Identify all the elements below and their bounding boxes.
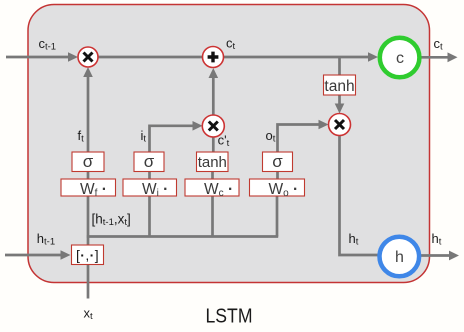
arrowhead f into x-node1 [83,67,93,77]
svg-text:tanh: tanh [198,154,227,171]
arrowhead into c circle [368,52,378,62]
svg-text:[·,·]: [·,·] [76,247,99,263]
wire o column up and right [278,125,320,153]
arrowhead i into c't node [193,121,203,131]
hidden state circle h [380,237,420,277]
add node [203,47,224,68]
sigma box o [263,152,293,172]
concat box [.,.] [72,245,104,265]
wire Wi stub down to bus [148,196,151,237]
wire sigma-i to Wi [148,172,151,180]
wire x-node2 down to h row [340,136,379,256]
wire x-node to +-node [98,56,203,59]
wire Wf stub down to concat box [87,196,90,245]
svg-text:Wf ·: Wf · [80,181,107,199]
multiply node (forget gate) [78,47,98,67]
weight box Wo [250,179,305,199]
arrowhead into x-node1 [68,52,78,62]
svg-text:h: h [395,249,404,266]
svg-text:σ: σ [272,152,283,171]
tanh box (candidate) [197,152,229,172]
wire c circle output [422,56,449,59]
memory cell circle c [380,38,420,78]
wire Wc stub down to bus [211,196,214,237]
wire h(t-1) input [5,254,62,257]
wire x(t) below concat box [87,265,90,299]
sigma box f [72,152,104,172]
arrowhead c(t) output [448,52,458,62]
wire i column up and right [150,126,194,152]
arrowhead o into x-node2 [319,120,329,130]
arrowhead h(t) output [449,251,459,261]
multiply node c't [202,115,224,137]
wire bus [87,235,278,238]
wire f column up [87,77,90,152]
wire tanh box to x-node2 [338,95,341,105]
wire +-node to c circle [224,56,370,59]
svg-text:tanh: tanh [324,78,354,95]
arrowhead into x-node2 from tanh [335,104,345,114]
sigma box i [134,152,164,172]
wire h circle output [421,254,450,257]
wire sigma-f to Wf [87,172,90,180]
weight box Wf [61,179,116,199]
arrowhead h(t-1) into concat box [61,250,71,260]
weight box Wc [185,179,239,199]
svg-text:Wi ·: Wi · [142,181,168,199]
arrowhead c't into +-node [209,68,219,78]
svg-text:LSTM: LSTM [206,306,253,328]
wire c(t-1) input [6,56,70,59]
wire Wo stub down to bus [276,196,279,237]
svg-text:Wc ·: Wc · [204,181,233,199]
svg-text:σ: σ [144,152,155,171]
wire c't node down to tanh box [212,137,215,152]
wire tanh2 to Wc [211,172,214,180]
svg-text:σ: σ [83,152,94,171]
wire top line to tanh box [338,57,341,75]
wire c't node up to +-node [212,78,215,115]
svg-text:c: c [396,50,404,67]
tanh box (output path) [324,75,356,95]
LSTM cell enclosure [28,5,430,283]
multiply node output gate [329,114,351,136]
wire sigma-o to Wo [276,172,279,180]
weight box Wi [123,179,177,199]
